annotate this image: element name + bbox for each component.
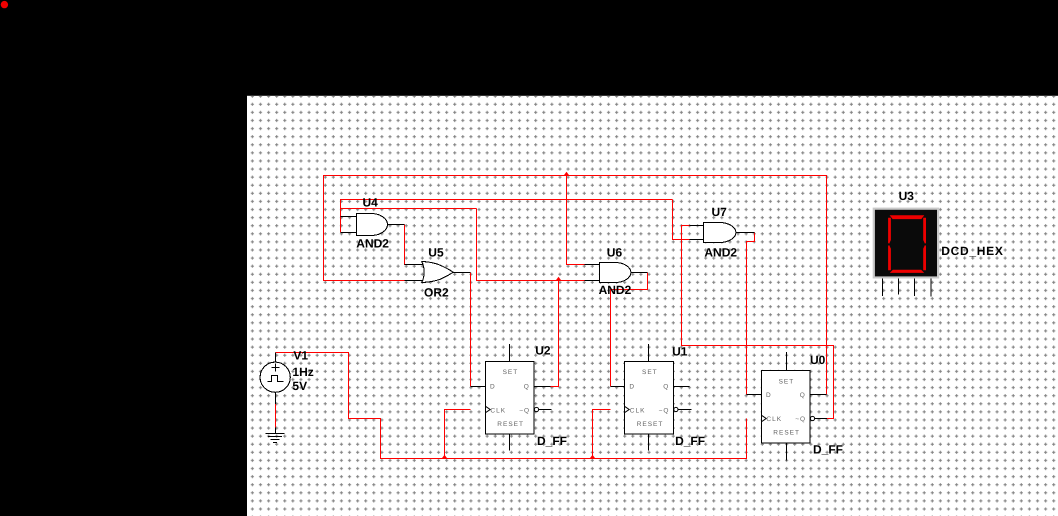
- svg-text:D_FF: D_FF: [537, 434, 567, 448]
- schematic white sheet: [247, 96, 1058, 516]
- wire U4 output to OR2 input A: [405, 225, 409, 265]
- pin stubs U4 AND2: [341, 217, 405, 233]
- svg-text:RESET: RESET: [773, 430, 800, 437]
- wire clock branch up to U1 CLK: [593, 410, 611, 459]
- svg-text:AND2: AND2: [704, 246, 737, 260]
- gate U7 AND2 body: [704, 223, 736, 243]
- grid dots: [247, 96, 1058, 516]
- svg-text:U0: U0: [810, 353, 826, 367]
- svg-text:1Hz: 1Hz: [292, 365, 313, 379]
- wire U7 output to U0 input D: [747, 233, 755, 395]
- wire branch junction down to U2 output Q: [550, 281, 559, 387]
- segment D: [890, 270, 924, 273]
- svg-text:Q: Q: [800, 392, 806, 399]
- junction on top bus at U6 drop: [563, 172, 569, 176]
- svg-text:5V: 5V: [292, 379, 307, 393]
- svg-text:D: D: [629, 384, 635, 391]
- segment A: [890, 215, 925, 219]
- pin stubs U7 AND2: [690, 226, 755, 240]
- svg-text:RESET: RESET: [637, 421, 664, 428]
- wire OR2 output down to U2 input D: [470, 273, 472, 387]
- junction on clock bus at U2 CLK branch: [441, 455, 447, 459]
- pin stubs U5 OR2: [405, 265, 471, 281]
- svg-text:OR2: OR2: [424, 286, 449, 300]
- svg-text:CLK: CLK: [766, 416, 782, 423]
- wire clock branch up to U2 CLK: [445, 410, 471, 459]
- gate U5 OR2 body: [422, 262, 453, 283]
- gate U4 AND2 body: [357, 214, 388, 236]
- svg-text:~Q: ~Q: [519, 407, 530, 414]
- gate U6 AND2 body: [600, 263, 631, 283]
- svg-text:U2: U2: [535, 344, 551, 358]
- seven-segment display U3 DCD_HEX: [873, 208, 940, 297]
- svg-text:D_FF: D_FF: [813, 443, 843, 457]
- ground symbol: [266, 434, 285, 443]
- svg-text:V1: V1: [293, 348, 308, 362]
- flip-flop U2 D_FF: [471, 344, 552, 451]
- svg-text:D: D: [766, 392, 772, 399]
- wire net U2.Q run to U6 input B: [477, 209, 585, 281]
- svg-text:CLK: CLK: [630, 407, 646, 414]
- svg-text:U4: U4: [363, 196, 379, 210]
- svg-text:RESET: RESET: [497, 421, 524, 428]
- svg-text:Q: Q: [524, 383, 530, 390]
- svg-text:U3: U3: [899, 189, 915, 203]
- svg-text:SET: SET: [503, 369, 519, 376]
- red record indicator dot: [1, 1, 8, 8]
- junction on U2.Q net at U6 input B run: [555, 277, 561, 281]
- svg-text:~Q: ~Q: [659, 407, 670, 414]
- svg-text:D_FF: D_FF: [675, 434, 705, 448]
- segment C: [923, 245, 926, 270]
- svg-text:U1: U1: [672, 345, 688, 359]
- wire net U2.Q upper run feeding U4 inputs: [341, 200, 673, 233]
- svg-text:U7: U7: [712, 205, 728, 219]
- wire U0 output ~Q up to U7 input A: [682, 226, 834, 419]
- segment F: [888, 218, 891, 244]
- svg-text:~Q: ~Q: [795, 416, 806, 423]
- flip-flop U0 D_FF: [747, 352, 828, 461]
- display pins: [883, 279, 932, 297]
- segment E: [888, 245, 891, 270]
- wire clock bus from V1: [276, 353, 747, 459]
- wire V1 to ground segment: [275, 404, 277, 428]
- svg-text:SET: SET: [642, 369, 658, 376]
- svg-text:SET: SET: [779, 378, 795, 385]
- wire branch from top bus down to U6 input A: [567, 176, 585, 265]
- svg-text:AND2: AND2: [356, 236, 389, 250]
- clock source V1: [260, 353, 290, 434]
- svg-text:D: D: [490, 383, 496, 390]
- svg-text:AND2: AND2: [599, 283, 632, 297]
- wire net U0.Q: right riser, top bus, left drop to OR2 input B: [324, 176, 827, 395]
- svg-text:U5: U5: [428, 246, 444, 260]
- junction on clock bus at U1 CLK branch: [589, 455, 595, 459]
- wire U6 output to U1 input D: [611, 273, 648, 387]
- pin stubs U6 AND2: [585, 265, 648, 281]
- segment B: [923, 218, 926, 244]
- svg-text:U6: U6: [607, 245, 623, 259]
- wire branch down to U7 input B: [673, 200, 690, 240]
- flip-flop U1 D_FF: [611, 344, 692, 451]
- svg-text:Q: Q: [663, 384, 669, 391]
- svg-text:DCD_HEX: DCD_HEX: [941, 244, 1003, 258]
- svg-text:CLK: CLK: [490, 407, 506, 414]
